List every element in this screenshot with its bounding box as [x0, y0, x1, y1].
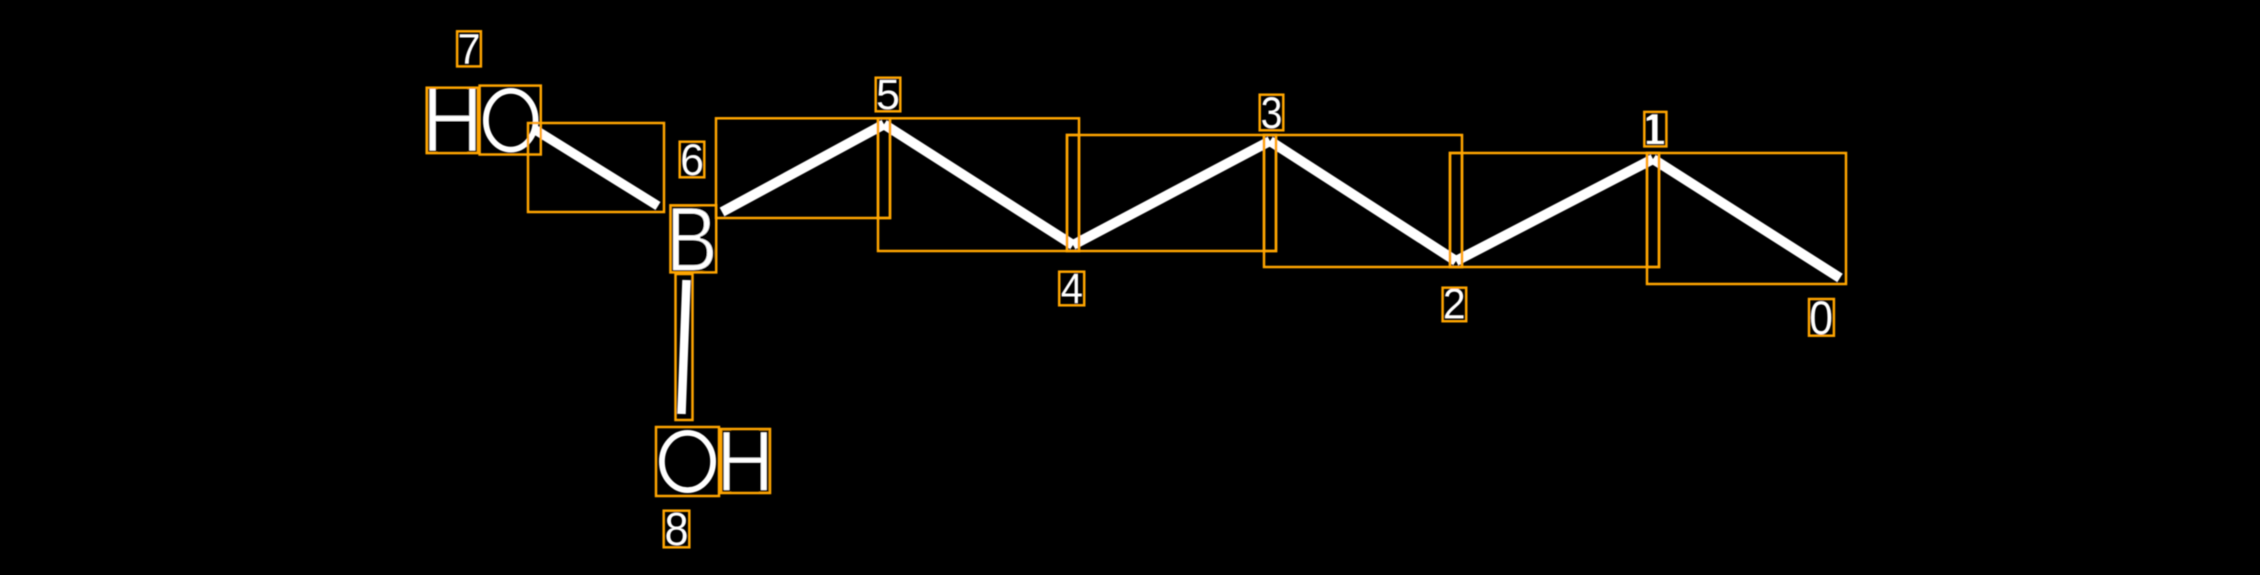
- atom B6 label B: [666, 188, 718, 290]
- atom index 6: [680, 135, 704, 185]
- atom index 3: [1261, 88, 1283, 138]
- bounding box of atom index 7: [457, 31, 481, 66]
- atom index 4: [1061, 264, 1083, 313]
- bounding box of atom O8 label O of OH: [656, 427, 719, 496]
- atom C3 box: [1264, 135, 1276, 251]
- atom index 7: [457, 25, 480, 73]
- bounding box of atom B6 label B: [670, 205, 716, 272]
- bounding box of atom index 5: [876, 78, 901, 112]
- bounding box of bond C4-C3: [1067, 135, 1276, 251]
- bond C2-C1: [1456, 159, 1653, 261]
- bounding box of atom index 8: [664, 511, 690, 548]
- atom index 5: [876, 71, 900, 119]
- atom O7 label H of HO: [422, 68, 484, 171]
- atom C1 box: [1647, 153, 1659, 267]
- bounding box of atom O7 label H of HO: [427, 88, 479, 153]
- bounding box of atom index 2: [1443, 288, 1467, 322]
- atom C4 box: [1067, 135, 1079, 251]
- bond C3-C2: [1270, 141, 1456, 261]
- bounding box of atom index 1: [1644, 112, 1666, 146]
- atom C5 box: [878, 118, 890, 218]
- bond C1-C0: [1653, 159, 1840, 278]
- bounding box of atom index 0: [1809, 299, 1834, 336]
- bounding box of atom O8 label H of OH: [721, 429, 770, 493]
- bounding box of bond C1-C0: [1647, 153, 1846, 284]
- atom index 1: [1647, 114, 1664, 144]
- atom O8 label O of OH: [662, 433, 713, 490]
- bounding box of bond C2-C1: [1450, 153, 1659, 267]
- bond C4-C3: [1073, 141, 1270, 245]
- atom C2 box: [1450, 153, 1462, 267]
- atom O7 label O of HO: [486, 91, 536, 150]
- bounding box of atom index 3: [1260, 95, 1284, 131]
- bounding box of bond C3-C2: [1264, 135, 1462, 267]
- bounding box of atom O7 label O of HO: [480, 86, 541, 155]
- atom index 0: [1809, 291, 1833, 344]
- bounding box of bond C5-C4: [878, 118, 1079, 251]
- bounding box of bond B6-O8: [676, 274, 693, 420]
- bond B6-O8: [682, 280, 687, 414]
- svg-text:H: H: [716, 413, 774, 510]
- bounding box of bond B6-C5: [716, 118, 890, 218]
- bounding box of atom index 6: [680, 142, 705, 178]
- atom index 8: [664, 504, 688, 556]
- atom index 2: [1443, 280, 1466, 328]
- bond O7-B6: [534, 129, 658, 206]
- atom O8 label H of OH: [716, 413, 774, 510]
- bond C5-C4: [884, 124, 1073, 245]
- bounding box of atom index 4: [1059, 272, 1084, 306]
- bond B6-C5: [722, 124, 884, 212]
- svg-text:H: H: [422, 68, 484, 171]
- bounding box of bond O7-B6: [528, 123, 664, 212]
